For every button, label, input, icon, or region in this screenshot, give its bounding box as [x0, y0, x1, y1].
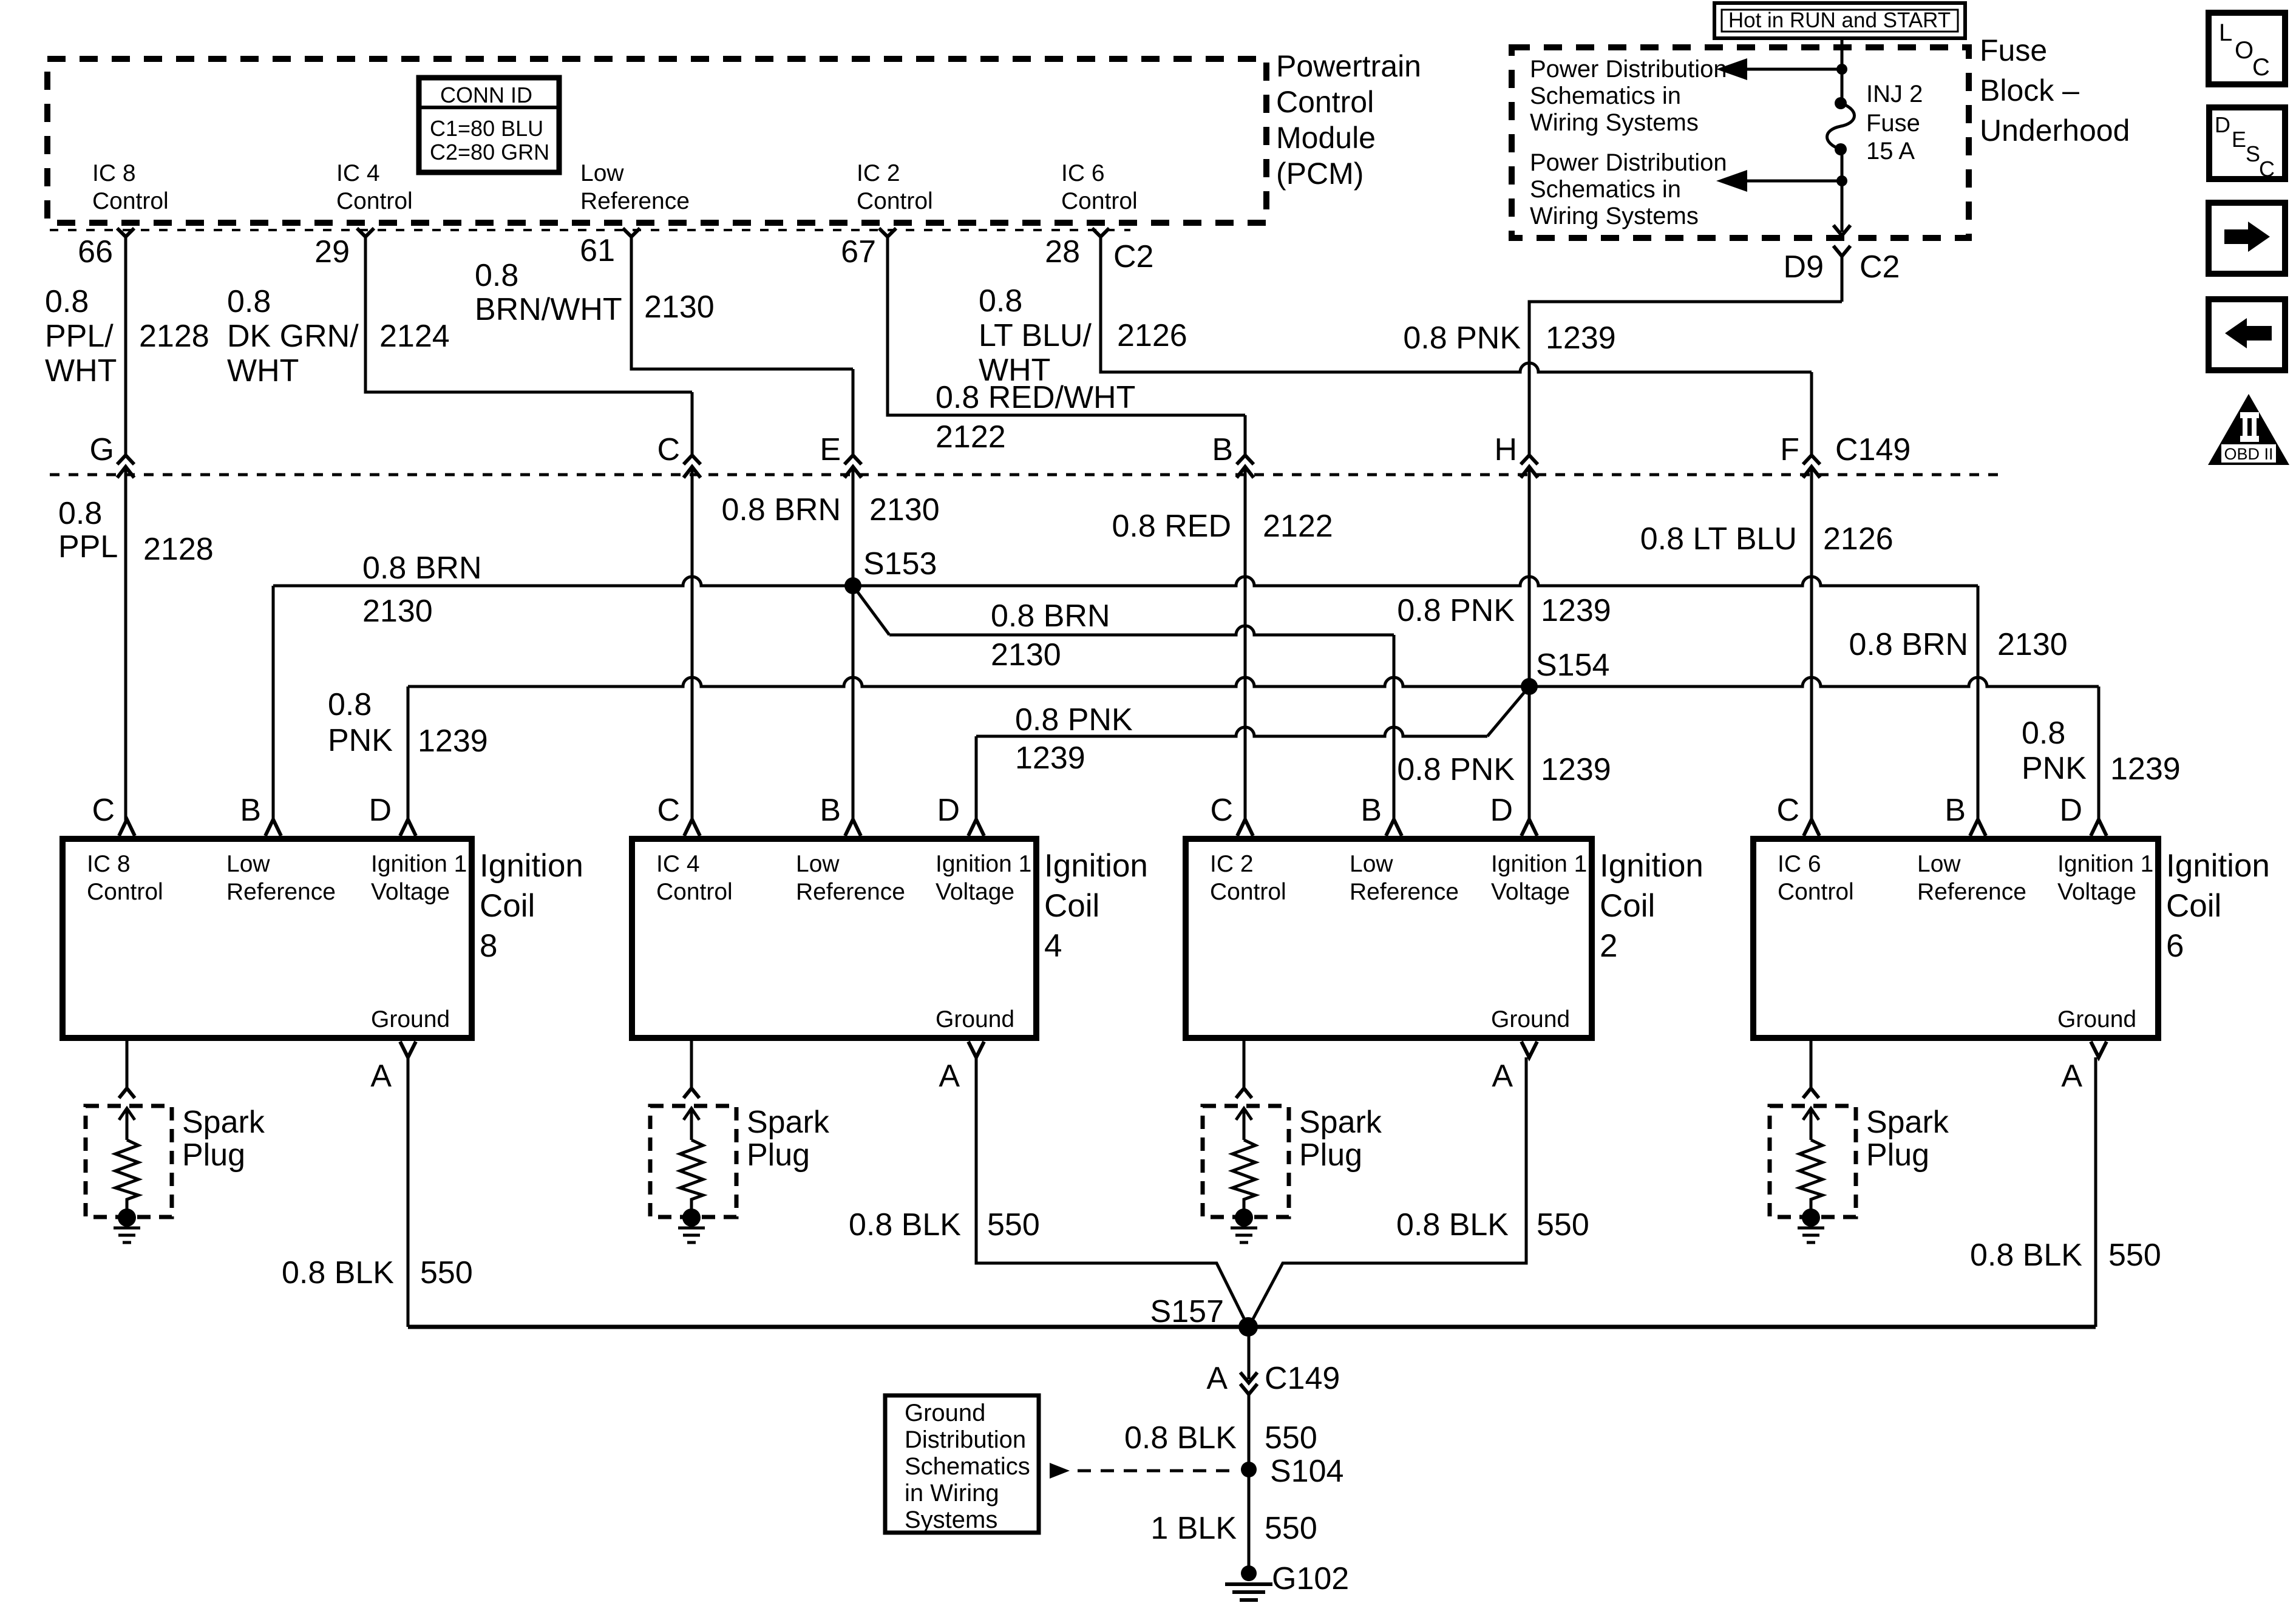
- Spark Plug label (coil 2): [1299, 1105, 1382, 1173]
- svg-text:Ignition 1: Ignition 1: [936, 851, 1031, 877]
- svg-text:0.8 PNK: 0.8 PNK: [1397, 752, 1515, 787]
- ignition coil 8 top pin fork at x=209: [119, 819, 135, 836]
- wire BLK 550 from coil 4 pin A: [976, 1057, 1248, 1327]
- svg-text:Ignition: Ignition: [480, 848, 583, 884]
- svg-text:in Wiring: in Wiring: [905, 1480, 999, 1507]
- svg-text:LT BLU/: LT BLU/: [979, 318, 1092, 353]
- svg-text:Voltage: Voltage: [936, 879, 1014, 905]
- svg-text:C: C: [657, 432, 680, 467]
- svg-text:D: D: [1490, 793, 1513, 828]
- C149 connector pin letters: [90, 432, 1911, 467]
- svg-text:B: B: [1212, 432, 1233, 467]
- ignition coil 4 top pin fork at x=1608: [968, 819, 984, 836]
- ignition coil 4 box: [632, 839, 1036, 1038]
- svg-text:Low: Low: [796, 851, 840, 877]
- label 0.8 BLK 550 below C149: [1124, 1420, 1317, 1456]
- svg-text:L: L: [2219, 19, 2232, 46]
- ignition coil 6 top pin fork at x=3457: [2091, 819, 2107, 836]
- Spark Plug label (coil 8): [182, 1105, 265, 1173]
- wire BRN 2130 down to coil 6 pin B: [1977, 586, 1980, 821]
- junction dot lower arrow: [1836, 175, 1847, 186]
- spark plug ground symbol (coil 8): [114, 1227, 140, 1230]
- svg-text:550: 550: [2108, 1238, 2161, 1273]
- svg-text:550: 550: [420, 1255, 473, 1290]
- splice S154 dot: [1521, 678, 1538, 695]
- svg-text:0.8 LT BLU: 0.8 LT BLU: [1640, 521, 1797, 557]
- svg-text:1239: 1239: [1541, 752, 1611, 787]
- Hot in RUN and START text: [1728, 8, 1951, 32]
- ignition coil 8 title: [480, 848, 583, 964]
- label 0.8 BRN 2130 on E wire: [721, 492, 939, 527]
- svg-text:0.8 RED: 0.8 RED: [1112, 509, 1231, 544]
- ground G102 dot: [1241, 1565, 1257, 1581]
- svg-text:0.8: 0.8: [475, 258, 518, 293]
- svg-text:2130: 2130: [1997, 627, 2068, 662]
- svg-text:1239: 1239: [1546, 320, 1616, 356]
- svg-text:0.8 BRN: 0.8 BRN: [991, 598, 1110, 634]
- wire PNK 1239 S154 left branch to coil 8 pin D: [408, 677, 1529, 686]
- PCM pin name labels: [92, 160, 1138, 214]
- svg-text:Ground: Ground: [371, 1006, 450, 1032]
- C149 connector dashed line: [50, 473, 2003, 476]
- svg-text:S153: S153: [863, 546, 937, 581]
- svg-text:Low: Low: [226, 851, 270, 877]
- ignition coil 6 pin letters: [1776, 793, 2082, 1094]
- svg-text:Schematics: Schematics: [905, 1453, 1030, 1480]
- svg-text:Distribution: Distribution: [905, 1426, 1026, 1453]
- svg-text:F: F: [1780, 432, 1799, 467]
- S157 label: [1150, 1294, 1224, 1329]
- svg-text:Fuse: Fuse: [1980, 33, 2047, 67]
- svg-text:PPL: PPL: [58, 529, 118, 564]
- label 0.8 BRN 2130 middle stack: [991, 598, 1110, 673]
- svg-text:2130: 2130: [644, 290, 715, 325]
- svg-text:IC 8: IC 8: [92, 160, 136, 186]
- svg-text:Plug: Plug: [747, 1137, 810, 1173]
- LOC icon box: [2209, 13, 2285, 84]
- svg-text:0.8 BLK: 0.8 BLK: [1396, 1207, 1509, 1242]
- svg-text:2124: 2124: [379, 319, 450, 354]
- splice S104 dot: [1241, 1462, 1257, 1477]
- svg-text:E: E: [2232, 127, 2246, 152]
- svg-text:Reference: Reference: [796, 879, 905, 905]
- svg-text:Power Distribution: Power Distribution: [1530, 149, 1727, 176]
- spark plug resistor zigzag (coil 6): [1799, 1140, 1822, 1209]
- ignition coil 4 pin letters: [657, 793, 960, 1094]
- svg-text:Coil: Coil: [480, 888, 535, 924]
- fuse block dashed box (Fuse Block - Underhood): [1512, 47, 1969, 238]
- svg-text:Plug: Plug: [1866, 1137, 1929, 1173]
- C149 pin H chevron: [1521, 455, 1538, 478]
- spark plug ground dot (coil 8): [118, 1209, 136, 1227]
- svg-text:Hot in RUN and START: Hot in RUN and START: [1728, 8, 1951, 32]
- label 0.8 BLK 550 coil4: [849, 1207, 1040, 1242]
- svg-text:Ignition 1: Ignition 1: [2057, 851, 2153, 877]
- label 0.8 PNK 1239 coil6 D: [2022, 716, 2181, 787]
- right arrow icon box: [2209, 203, 2285, 274]
- svg-text:A: A: [2061, 1059, 2082, 1094]
- svg-text:Control: Control: [1778, 879, 1854, 905]
- Fuse Block - Underhood label: [1980, 33, 2130, 147]
- C149 pin G chevron: [117, 455, 134, 478]
- label 0.8 BRN 2130 left stack: [362, 551, 482, 629]
- svg-text:D: D: [937, 793, 960, 828]
- svg-text:Ground: Ground: [2057, 1006, 2136, 1032]
- svg-text:D: D: [2059, 793, 2082, 828]
- svg-text:IC 2: IC 2: [1210, 851, 1254, 877]
- wire D9 to corner: [1841, 256, 1844, 302]
- svg-text:Control: Control: [1210, 879, 1286, 905]
- C149 pin C chevron: [684, 455, 701, 478]
- PCM module dashed box (Powertrain Control Module): [47, 59, 1266, 223]
- ignition coil 8 top pin fork at x=672: [400, 819, 416, 836]
- svg-text:2130: 2130: [991, 637, 1061, 673]
- svg-text:Low: Low: [1917, 851, 1961, 877]
- Powertrain Control Module (PCM) label: [1276, 49, 1421, 191]
- svg-text:Control: Control: [87, 879, 163, 905]
- svg-text:550: 550: [1265, 1511, 1317, 1546]
- svg-text:0.8 BLK: 0.8 BLK: [1124, 1420, 1237, 1456]
- wire E connector to coil 4 pin B through S153: [852, 369, 855, 455]
- svg-text:PNK: PNK: [2022, 751, 2087, 786]
- ignition coil 4 top pin fork at x=1405: [845, 819, 861, 836]
- svg-text:2126: 2126: [1117, 318, 1187, 353]
- PCM pin 28 connector fork: [1092, 228, 1109, 237]
- svg-text:0.8: 0.8: [979, 283, 1022, 319]
- svg-text:Low: Low: [580, 160, 624, 186]
- svg-text:Coil: Coil: [2166, 888, 2221, 924]
- lower arrow to power distribution: [1747, 180, 1842, 183]
- wire PPL 2128 from pin 66 to coil 8 (circuit 2128): [124, 237, 127, 455]
- CONN ID box: [419, 78, 559, 172]
- svg-text:IC 2: IC 2: [857, 160, 900, 186]
- svg-text:Fuse: Fuse: [1866, 110, 1920, 137]
- svg-text:C: C: [2259, 157, 2275, 181]
- svg-text:1239: 1239: [418, 724, 488, 759]
- ignition coil 2 pin name text: [1210, 851, 1587, 1032]
- svg-text:S157: S157: [1150, 1294, 1224, 1329]
- svg-text:C149: C149: [1835, 432, 1911, 467]
- svg-text:2130: 2130: [869, 492, 940, 527]
- svg-text:Plug: Plug: [1299, 1137, 1362, 1173]
- svg-text:2122: 2122: [1263, 509, 1333, 544]
- svg-text:29: 29: [314, 234, 350, 269]
- ignition coil 2 top pin fork at x=2519: [1521, 819, 1537, 836]
- svg-text:0.8 BLK: 0.8 BLK: [849, 1207, 961, 1242]
- wire PNK 1239 S154 right branch to coil 6 pin D: [1529, 677, 2099, 686]
- wire from hot box to fuse: [1841, 38, 1844, 103]
- svg-text:Plug: Plug: [182, 1137, 245, 1173]
- label 0.8 PNK 1239 coil2 D: [1397, 752, 1611, 787]
- svg-text:Ignition 1: Ignition 1: [371, 851, 467, 877]
- fuse block power distribution text lower: [1530, 149, 1727, 229]
- PNK wire horizontal from D9: [1529, 302, 1842, 333]
- ignition coil 6 box: [1753, 839, 2158, 1038]
- svg-text:IC 4: IC 4: [656, 851, 700, 877]
- LOC icon letters: [2219, 19, 2270, 81]
- svg-text:B: B: [240, 793, 261, 828]
- ignition coil 2 top pin fork at x=2051: [1237, 819, 1253, 836]
- ignition coil 8 pin A fork: [400, 1042, 416, 1057]
- DESC icon box: [2209, 107, 2285, 179]
- label 0.8 PPL/WHT 2128: [45, 284, 209, 388]
- svg-text:Voltage: Voltage: [1491, 879, 1570, 905]
- label 1 BLK 550: [1150, 1511, 1317, 1546]
- S153 label: [863, 546, 937, 581]
- svg-text:G102: G102: [1272, 1561, 1349, 1596]
- wire F connector to coil 6 pin C: [1810, 372, 1813, 455]
- svg-text:Powertrain: Powertrain: [1276, 49, 1421, 83]
- splice S153 dot: [844, 577, 861, 594]
- svg-text:Ignition: Ignition: [1600, 848, 1703, 884]
- svg-text:Low: Low: [1350, 851, 1393, 877]
- spark plug dashed box (coil 6): [1770, 1106, 1856, 1217]
- wire BRN 2130 S153 diagonal branch to coil 2 pin B: [853, 586, 889, 635]
- spark plug dashed box (coil 8): [86, 1106, 172, 1217]
- label 0.8 PNK 1239 upper: [1403, 320, 1615, 356]
- ignition coil 6 top pin fork at x=2984: [1804, 819, 1819, 836]
- PCM bottom connector thin dashed line: [50, 229, 1130, 231]
- S154 label: [1536, 648, 1609, 683]
- svg-text:Module: Module: [1276, 121, 1376, 155]
- ground G102 symbol: [1225, 1582, 1272, 1586]
- svg-text:G: G: [90, 432, 114, 467]
- svg-text:1 BLK: 1 BLK: [1150, 1511, 1237, 1546]
- wire from coil 8 to spark plug: [126, 1038, 129, 1088]
- svg-text:A: A: [1492, 1059, 1513, 1094]
- DESC icon letters: [2215, 112, 2275, 181]
- svg-text:Reference: Reference: [1350, 879, 1459, 905]
- label 0.8 PNK 1239 coil8 D: [328, 687, 488, 759]
- wire BRN 2130 horizontal through S153: [273, 577, 1978, 586]
- OBD II triangle icon: [2208, 394, 2289, 465]
- label 0.8 PNK 1239 coil4 D stack: [1015, 702, 1133, 776]
- svg-text:Voltage: Voltage: [2057, 879, 2136, 905]
- wire S157 down to G102: [1248, 1327, 1251, 1379]
- spark plug resistor zigzag (coil 2): [1232, 1140, 1255, 1209]
- svg-text:Underhood: Underhood: [1980, 114, 2130, 147]
- left arrow icon box: [2209, 299, 2285, 370]
- svg-text:0.8 BLK: 0.8 BLK: [282, 1255, 394, 1290]
- ignition coil 2 title: [1600, 848, 1703, 964]
- upper arrow to power distribution: [1747, 68, 1842, 71]
- svg-text:S154: S154: [1536, 648, 1609, 683]
- fuse INJ 2 Fuse 15 A label: [1866, 81, 1923, 164]
- svg-text:C1=80 BLU: C1=80 BLU: [430, 116, 543, 141]
- svg-text:66: 66: [78, 234, 113, 269]
- label 0.8 BLK 550 coil2: [1396, 1207, 1589, 1242]
- Spark Plug label (coil 4): [747, 1105, 830, 1173]
- ignition coil 8 pin name text: [87, 851, 467, 1032]
- svg-text:0.8: 0.8: [45, 284, 89, 319]
- svg-text:Ground: Ground: [936, 1006, 1014, 1032]
- svg-text:WHT: WHT: [979, 353, 1050, 388]
- C149 pin F chevron: [1803, 455, 1820, 478]
- svg-text:C: C: [1210, 793, 1233, 828]
- svg-text:1239: 1239: [2110, 751, 2181, 787]
- svg-text:WHT: WHT: [45, 353, 117, 388]
- svg-text:D: D: [2215, 112, 2230, 137]
- label 0.8 BRN 2130 right: [1849, 627, 2067, 662]
- svg-text:C: C: [2252, 54, 2270, 81]
- svg-text:Ground: Ground: [905, 1400, 985, 1426]
- svg-text:Spark: Spark: [1866, 1105, 1949, 1140]
- svg-text:0.8 PNK: 0.8 PNK: [1397, 593, 1515, 628]
- spark plug fork connector (coil 6): [1803, 1088, 1819, 1098]
- C149 pin B chevron: [1237, 455, 1254, 478]
- svg-text:IC 8: IC 8: [87, 851, 131, 877]
- svg-text:1239: 1239: [1541, 593, 1611, 628]
- svg-text:Control: Control: [656, 879, 733, 905]
- spark plug ground dot (coil 6): [1802, 1209, 1820, 1227]
- svg-text:550: 550: [1265, 1420, 1317, 1456]
- Spark Plug label (coil 6): [1866, 1105, 1949, 1173]
- spark plug electrode arrow (coil 6): [1803, 1108, 1819, 1140]
- spark plug dashed box (coil 2): [1203, 1106, 1289, 1217]
- svg-text:0.8 BRN: 0.8 BRN: [721, 492, 841, 527]
- svg-text:2122: 2122: [936, 419, 1006, 455]
- svg-text:PPL/: PPL/: [45, 319, 114, 354]
- wire from fuse to lower junction: [1841, 149, 1844, 232]
- spark plug electrode arrow (coil 8): [119, 1108, 135, 1140]
- wire from coil 6 to spark plug: [1810, 1038, 1813, 1088]
- svg-text:0.8 BRN: 0.8 BRN: [362, 551, 482, 586]
- svg-text:E: E: [820, 432, 841, 467]
- label A C149: [1206, 1361, 1340, 1396]
- svg-text:61: 61: [580, 233, 615, 268]
- wire H connector PNK to S154 and coil 2 pin D: [1528, 302, 1531, 455]
- svg-text:IC 4: IC 4: [336, 160, 380, 186]
- ignition coil 6 pin name text: [1778, 851, 2153, 1032]
- junction dot upper arrow: [1836, 64, 1847, 75]
- svg-text:OBD II: OBD II: [2224, 445, 2273, 463]
- label 0.8 RED/WHT 2122: [936, 380, 1135, 455]
- wire DK GRN 2124 from pin 29: [365, 237, 692, 392]
- spark plug ground symbol (coil 4): [678, 1227, 705, 1230]
- spark plug electrode arrow (coil 2): [1236, 1108, 1252, 1140]
- svg-text:C: C: [1776, 793, 1799, 828]
- svg-text:8: 8: [480, 928, 497, 964]
- svg-text:B: B: [1944, 793, 1966, 828]
- PCM pin 61 connector fork: [623, 228, 640, 237]
- wire BLK 550 from coil 2 pin A: [1249, 1057, 1526, 1327]
- label 0.8 LT BLU/WHT 2126: [979, 283, 1187, 388]
- label 0.8 BLK 550 coil6: [1970, 1238, 2161, 1273]
- svg-text:Reference: Reference: [226, 879, 336, 905]
- spark plug resistor zigzag (coil 4): [680, 1140, 703, 1209]
- ignition coil 2 top pin fork at x=2296: [1386, 819, 1402, 836]
- wire C connector to coil 4 pin C: [691, 392, 694, 455]
- label 0.8 PPL 2128 below C149: [58, 496, 214, 567]
- spark plug electrode arrow (coil 4): [684, 1108, 699, 1140]
- svg-text:Control: Control: [1061, 188, 1138, 214]
- svg-text:C2: C2: [1113, 239, 1153, 274]
- svg-text:C2: C2: [1860, 249, 1900, 285]
- svg-text:2126: 2126: [1823, 521, 1894, 557]
- svg-text:PNK: PNK: [328, 723, 393, 758]
- label 0.8 DK GRN/WHT 2124: [227, 284, 450, 388]
- svg-text:WHT: WHT: [227, 353, 299, 388]
- spark plug fork connector (coil 2): [1236, 1088, 1252, 1098]
- label 0.8 PNK 1239 on H wire: [1397, 593, 1611, 628]
- svg-text:Schematics in: Schematics in: [1530, 176, 1681, 203]
- svg-text:B: B: [820, 793, 841, 828]
- ignition coil 4 pin name text: [656, 851, 1031, 1032]
- spark plug resistor zigzag (coil 8): [115, 1140, 138, 1209]
- ground distribution reference box: [885, 1395, 1039, 1533]
- label 0.8 RED 2122 on B wire: [1112, 509, 1333, 544]
- svg-text:0.8 PNK: 0.8 PNK: [1015, 702, 1133, 737]
- svg-text:IC 6: IC 6: [1061, 160, 1105, 186]
- ignition coil 4 top pin fork at x=1140: [684, 819, 700, 836]
- svg-text:Ignition: Ignition: [2166, 848, 2270, 884]
- C149 pin E chevron: [844, 455, 861, 478]
- svg-text:67: 67: [841, 234, 876, 269]
- D9 C2 connector labels: [1784, 249, 1900, 285]
- ignition coil 2 box: [1186, 839, 1592, 1038]
- ground distribution box text: [905, 1400, 1030, 1533]
- svg-text:Control: Control: [1276, 85, 1374, 119]
- PCM pin 29 connector fork: [357, 228, 374, 237]
- fuse block exit connector chevrons D9: [1833, 225, 1850, 256]
- ignition coil 2 pin A fork: [1521, 1042, 1537, 1057]
- svg-text:S: S: [2246, 141, 2260, 166]
- svg-text:15 A: 15 A: [1866, 138, 1915, 164]
- svg-text:0.8: 0.8: [227, 284, 271, 319]
- svg-text:S104: S104: [1270, 1454, 1343, 1489]
- svg-text:2128: 2128: [139, 319, 209, 354]
- svg-text:BRN/WHT: BRN/WHT: [475, 292, 622, 327]
- ground distribution dashed arrow to S104: [1050, 1463, 1070, 1479]
- wire PNK 1239 S154 lower branch to coil 4 pin D: [976, 727, 1487, 736]
- svg-text:A: A: [939, 1059, 960, 1094]
- ignition coil 8 box: [63, 839, 472, 1038]
- svg-text:Coil: Coil: [1600, 888, 1655, 924]
- svg-text:Spark: Spark: [1299, 1105, 1382, 1140]
- svg-text:Reference: Reference: [1917, 879, 2026, 905]
- wire RED 2122 from pin 67: [888, 237, 1245, 415]
- svg-text:Wiring Systems: Wiring Systems: [1530, 109, 1699, 136]
- svg-text:DK GRN/: DK GRN/: [227, 319, 359, 354]
- wire B connector to coil 2 pin C: [1244, 415, 1247, 455]
- svg-text:Ground: Ground: [1491, 1006, 1570, 1032]
- ignition coil 8 top pin fork at x=450: [265, 819, 281, 836]
- spark plug fork connector (coil 4): [684, 1088, 699, 1098]
- svg-text:550: 550: [987, 1207, 1040, 1242]
- svg-text:INJ 2: INJ 2: [1866, 81, 1923, 107]
- wire BLK 550 from coil 6 pin A: [2094, 1057, 2097, 1327]
- spark plug ground symbol (coil 2): [1231, 1227, 1257, 1230]
- wire BRN 2130 coil8 B up to splice line: [272, 586, 275, 821]
- splice S157 dot: [1238, 1317, 1258, 1337]
- svg-text:Reference: Reference: [580, 188, 690, 214]
- svg-text:Control: Control: [336, 188, 413, 214]
- PCM pin numbers: [78, 233, 1153, 274]
- svg-text:4: 4: [1044, 928, 1062, 964]
- ignition coil 4 title: [1044, 848, 1148, 964]
- svg-text:1239: 1239: [1015, 741, 1085, 776]
- svg-text:C149: C149: [1265, 1361, 1340, 1396]
- label 0.8 BLK 550 coil8: [282, 1255, 473, 1290]
- svg-text:H: H: [1494, 432, 1517, 467]
- spark plug ground dot (coil 2): [1235, 1209, 1253, 1227]
- svg-text:Schematics in: Schematics in: [1530, 83, 1681, 109]
- spark plug ground dot (coil 4): [682, 1209, 701, 1227]
- S104 label: [1270, 1454, 1343, 1489]
- svg-text:CONN ID: CONN ID: [440, 83, 532, 107]
- svg-text:Wiring Systems: Wiring Systems: [1530, 203, 1699, 229]
- wire from coil 4 to spark plug: [690, 1038, 693, 1088]
